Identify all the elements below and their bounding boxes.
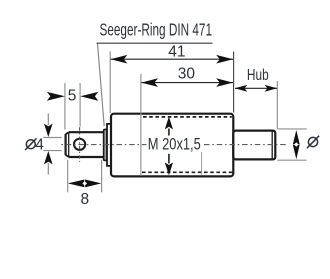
dia4 arrow down tail (47, 114, 49, 126)
extension line stub diameter top (277, 128, 306, 130)
dia4 arrow down (44, 124, 53, 137)
dim 30 arrow right (216, 78, 233, 87)
small shaft body (66, 132, 104, 157)
M20 label down arrow tail (168, 154, 170, 164)
dim 5 arrow right (80, 92, 98, 101)
svg-text:M 20x1,5: M 20x1,5 (148, 135, 201, 153)
extension line 8 right (101, 160, 103, 193)
svg-text:Seeger-Ring DIN 471: Seeger-Ring DIN 471 (100, 20, 213, 40)
Hub arrow left (235, 85, 248, 92)
extension line 5 left (64, 83, 66, 130)
hole vertical centerline (79, 127, 81, 162)
M20 down arrow (165, 162, 173, 175)
svg-text:5: 5 (68, 87, 77, 104)
Hub arrow right (265, 85, 278, 92)
dia4 symbol (25, 138, 36, 150)
extension line stub diameter bottom (277, 159, 306, 161)
dim 5 arrow left (47, 92, 65, 101)
dim 30 arrow left (141, 78, 158, 87)
extension line 30 (x=141) (140, 74, 142, 176)
svg-text:41: 41 (168, 43, 185, 60)
leader Seeger-Ring (98, 44, 105, 127)
threaded cylinder M20 (111, 114, 233, 177)
title underline (97, 42, 213, 44)
svg-text:4: 4 (35, 137, 44, 154)
hole circle (74, 139, 85, 150)
dim 8 white center (82, 181, 87, 185)
stub dia arrow down (293, 145, 300, 160)
M20 label up arrow tail (168, 129, 170, 136)
extension line 41/30 left (x=110) (109, 52, 111, 114)
dim 8 arrow right (85, 180, 101, 188)
extension line 41/30/Hub right (x=233.6) (233, 52, 235, 113)
dia4 arrow up tail (47, 163, 49, 175)
extension line 8 left (67, 160, 69, 193)
thread dashed line bottom (142, 171, 234, 173)
washer (107, 124, 111, 166)
svg-text:Hub: Hub (247, 67, 269, 84)
seeger ring (104, 129, 107, 160)
faint line in cylinder bottom (201, 152, 203, 176)
stub dia white center (294, 142, 298, 146)
extension line dia4 bottom (43, 150, 62, 152)
Hub dim line (235, 87, 277, 89)
shaft chamfer line (68, 133, 70, 157)
svg-text:30: 30 (178, 66, 196, 83)
svg-text:8: 8 (80, 191, 89, 208)
dim 30 line (141, 82, 233, 84)
stub chamfer line (271, 132, 273, 159)
right stub shaft (233, 131, 275, 160)
centerline main axis (61, 144, 288, 146)
extension line 5 right (79, 83, 81, 127)
dim 41 arrow left (111, 55, 128, 64)
dim 8 arrow left (68, 180, 84, 188)
extension line dia4 top (43, 137, 62, 139)
stub dia symbol (307, 136, 319, 148)
stub dia arrow up (293, 130, 300, 144)
M20 up arrow (165, 117, 173, 130)
dim 41 arrow right (216, 55, 233, 64)
extension line Hub right (x=277) (276, 81, 278, 129)
thread dashed line top (143, 116, 232, 118)
dia4 arrow up (44, 151, 53, 164)
dim 41 line (111, 58, 233, 60)
